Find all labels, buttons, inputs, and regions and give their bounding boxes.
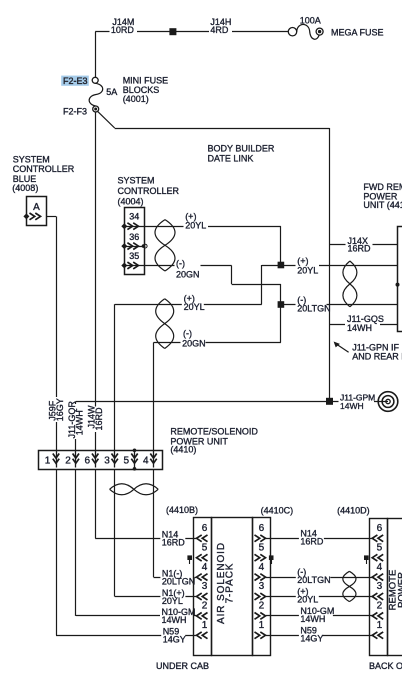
svg-text:(4001): (4001) [123,94,149,104]
svg-text:2: 2 [377,601,383,612]
svg-text:16RD: 16RD [300,536,324,546]
svg-text:(-): (-) [176,258,185,268]
svg-text:16RD: 16RD [348,243,372,253]
svg-text:F2-E3: F2-E3 [63,76,88,86]
svg-text:14WH: 14WH [75,410,85,435]
svg-text:20YL: 20YL [184,302,205,312]
svg-text:FWD REMOTE: FWD REMOTE [363,182,402,192]
svg-text:3: 3 [104,455,110,466]
svg-text:20LTGN: 20LTGN [297,575,330,585]
svg-text:(+): (+) [297,256,308,266]
svg-text:20GN: 20GN [182,339,206,349]
svg-text:1: 1 [202,620,208,631]
svg-text:20YL: 20YL [297,595,318,605]
svg-text:14WH: 14WH [347,323,372,333]
svg-text:20YL: 20YL [162,596,183,606]
svg-text:(-): (-) [183,329,192,339]
svg-text:BODY BUILDER: BODY BUILDER [208,143,275,153]
svg-text:3: 3 [202,581,208,592]
svg-text:6: 6 [202,523,208,534]
svg-text:20YL: 20YL [297,265,318,275]
svg-text:3: 3 [377,581,383,592]
svg-text:16RD: 16RD [94,407,104,431]
svg-text:1: 1 [45,455,51,466]
svg-text:5: 5 [124,455,130,466]
svg-text:2: 2 [202,601,208,612]
svg-text:16GY: 16GY [55,398,65,421]
svg-text:5: 5 [377,542,383,553]
svg-text:6: 6 [259,523,265,534]
svg-text:1: 1 [259,620,265,631]
svg-text:2: 2 [65,455,71,466]
svg-text:14WH: 14WH [300,614,325,624]
svg-text:SYSTEM: SYSTEM [13,154,50,164]
svg-text:20YL: 20YL [185,220,206,230]
svg-text:34: 34 [129,211,139,221]
svg-text:20LTGN: 20LTGN [162,576,195,586]
svg-text:5: 5 [259,542,265,553]
svg-text:4: 4 [143,455,149,466]
svg-text:2: 2 [259,601,265,612]
svg-text:10RD: 10RD [111,25,135,35]
svg-text:5: 5 [202,542,208,553]
svg-text:14GY: 14GY [163,635,186,645]
svg-text:16RD: 16RD [162,538,186,548]
svg-text:4: 4 [259,562,265,573]
svg-text:REMOTE/SOLENOID: REMOTE/SOLENOID [170,426,258,436]
svg-text:DATE LINK: DATE LINK [208,153,254,163]
svg-text:AND REAR PO: AND REAR PO [352,351,402,361]
svg-text:4: 4 [202,562,208,573]
svg-text:5A: 5A [106,87,117,97]
svg-text:6: 6 [377,523,383,534]
svg-text:3: 3 [259,581,265,592]
svg-text:F2-F3: F2-F3 [63,106,87,116]
svg-text:MEGA FUSE: MEGA FUSE [331,27,384,37]
svg-text:14WH: 14WH [340,401,364,411]
svg-text:BACK OF CAB: BACK OF CAB [369,661,402,671]
svg-text:35: 35 [129,251,139,261]
svg-text:6: 6 [85,455,91,466]
svg-text:4RD: 4RD [210,25,229,35]
svg-text:UNDER CAB: UNDER CAB [156,661,209,671]
svg-text:CONTROLLER: CONTROLLER [13,164,75,174]
svg-text:A: A [33,202,40,213]
svg-text:4: 4 [377,562,383,573]
svg-text:(4008): (4008) [12,183,38,193]
svg-text:(4410D): (4410D) [337,506,370,516]
svg-text:POWER: POWER [396,572,402,608]
svg-text:14WH: 14WH [162,615,187,625]
svg-text:(4410B): (4410B) [166,505,198,515]
svg-text:(4410): (4410) [170,444,196,454]
svg-text:7-PACK: 7-PACK [224,563,235,604]
svg-text:20GN: 20GN [176,269,200,279]
svg-text:SYSTEM: SYSTEM [118,176,155,186]
svg-text:20LTGN: 20LTGN [297,303,330,313]
svg-text:UNIT (4410A): UNIT (4410A) [363,200,402,210]
svg-text:(4004): (4004) [118,197,144,207]
svg-text:(4410C): (4410C) [261,506,294,516]
svg-text:36: 36 [129,232,139,242]
svg-text:CONTROLLER: CONTROLLER [118,186,180,196]
svg-text:1: 1 [377,620,383,631]
svg-text:14GY: 14GY [300,633,323,643]
